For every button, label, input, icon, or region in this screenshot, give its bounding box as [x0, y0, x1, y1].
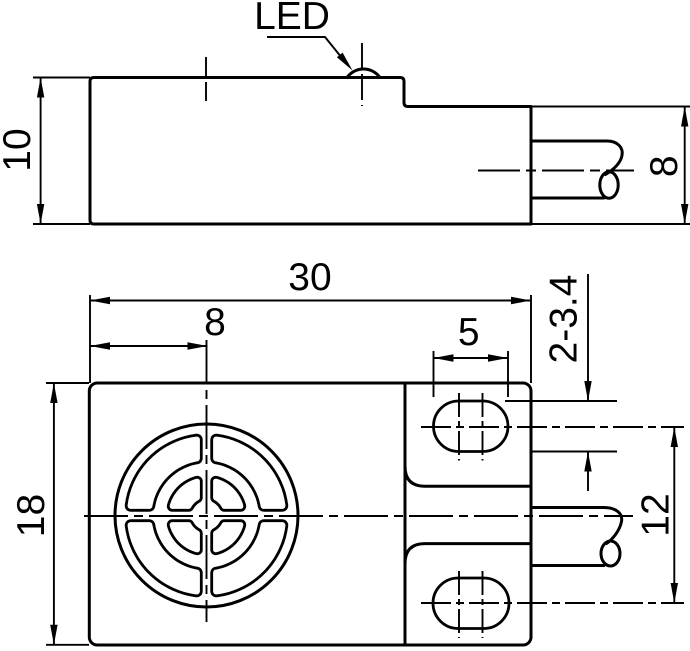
dim 2-3.4 arrow up: [584, 452, 591, 472]
dim 10 extension bottom: [33, 223, 90, 225]
dim 12 arrow up: [671, 427, 678, 447]
grille inner slot lower-right: [212, 521, 245, 554]
cable break loop (top view): [600, 172, 618, 198]
cable break curve (top view): [606, 141, 623, 175]
grille outer slot lower-right: [212, 521, 287, 596]
svg-text:2-3.4: 2-3.4: [543, 275, 586, 364]
svg-text:30: 30: [288, 256, 331, 299]
svg-text:8: 8: [643, 155, 686, 177]
top slot: [434, 401, 509, 452]
dim 2-3.4 line lower: [587, 452, 589, 492]
face centerline (top view): [205, 57, 207, 104]
grille outer slot lower-left: [126, 521, 201, 596]
grille inner slot lower-left: [168, 521, 201, 554]
dim 18 arrow up: [50, 383, 57, 403]
cable notch top edge: [405, 466, 531, 486]
top slot vertical centerline 1: [458, 393, 460, 461]
dim 2-3.4 extension bottom: [531, 451, 617, 453]
dim 5 arrow right: [488, 354, 508, 361]
dim 2-3.4 line upper: [587, 274, 589, 401]
dim 30 arrow right: [511, 297, 531, 304]
LED leader arrowhead: [337, 53, 353, 71]
LED centerline: [361, 43, 363, 106]
cable bottom edge (bottom view): [531, 564, 604, 567]
top slot horizontal centerline: [421, 426, 684, 428]
cable break curve (bottom view): [604, 508, 622, 544]
bottom slot vertical centerline 1: [458, 571, 460, 638]
dim 18 extension top: [46, 382, 89, 384]
dim 30 extension left: [89, 295, 91, 383]
dim 8 extension bottom (body bottom extension): [531, 223, 690, 225]
sensor body outline (top view) with step: [90, 78, 531, 225]
dim 12 line: [673, 427, 675, 603]
bottom slot vertical centerline 2: [482, 571, 484, 638]
dim 30 line: [90, 300, 531, 302]
dim 5 extension left: [433, 351, 435, 397]
dim 10 extension top: [33, 77, 90, 79]
dim 8 arrow left (bottom view): [90, 342, 110, 349]
dim 8 arrow up (top view): [681, 107, 688, 127]
dim 18 arrow down: [50, 625, 57, 645]
grille outer slot upper-right: [212, 435, 287, 510]
cable notch bottom edge: [405, 544, 531, 564]
cable top edge (bottom view): [531, 506, 604, 509]
svg-text:10: 10: [0, 128, 39, 171]
bottom slot: [433, 578, 509, 629]
cable top edge (top view): [531, 140, 607, 143]
svg-text:12: 12: [635, 493, 678, 536]
svg-text:LED: LED: [254, 0, 330, 38]
dim 30 arrow left: [90, 297, 110, 304]
dim 8 extension top (step edge extension): [531, 106, 690, 108]
flange divider line: [404, 383, 407, 645]
cable bottom edge (top view): [531, 197, 604, 200]
dim 10 arrow down: [37, 204, 44, 224]
bottom slot horizontal centerline: [421, 602, 684, 604]
face vertical centerline: [206, 340, 208, 622]
dim 12 arrow down: [671, 583, 678, 603]
svg-text:8: 8: [204, 301, 226, 344]
dim 18 extension bottom: [46, 644, 89, 646]
dim 5 extension right: [507, 351, 509, 397]
face horizontal centerline: [84, 515, 633, 517]
dim 8 line (top view): [684, 107, 686, 225]
dim 8 arrow right (bottom view): [188, 342, 208, 349]
LED leader line: [267, 37, 346, 63]
dim 10 arrow up: [37, 78, 44, 98]
dim 2-3.4 arrow down: [584, 381, 591, 401]
svg-text:5: 5: [458, 311, 480, 354]
dim 8 line (bottom view): [90, 345, 208, 347]
dim 10 line: [40, 78, 42, 225]
dim 5 arrow left: [434, 354, 454, 361]
dim 8 arrow down (top view): [681, 204, 688, 224]
LED bump arc: [347, 69, 380, 77]
top edge under LED bump (wire): [347, 76, 380, 79]
cable break loop (bottom view): [601, 541, 620, 566]
cable centerline (top view): [478, 170, 634, 172]
grille inner slot upper-left: [168, 477, 201, 510]
dim 5 line: [434, 357, 509, 359]
dim 2-3.4 extension top: [505, 400, 617, 402]
dim 30 extension right: [530, 295, 532, 383]
dim 18 line: [53, 383, 55, 645]
sensing face outer circle: [115, 424, 298, 607]
grille inner slot upper-right: [212, 477, 245, 510]
top slot vertical centerline 2: [482, 393, 484, 461]
svg-text:18: 18: [10, 494, 53, 537]
sensor body outline (bottom view): [89, 383, 531, 645]
grille outer slot upper-left: [126, 435, 201, 510]
